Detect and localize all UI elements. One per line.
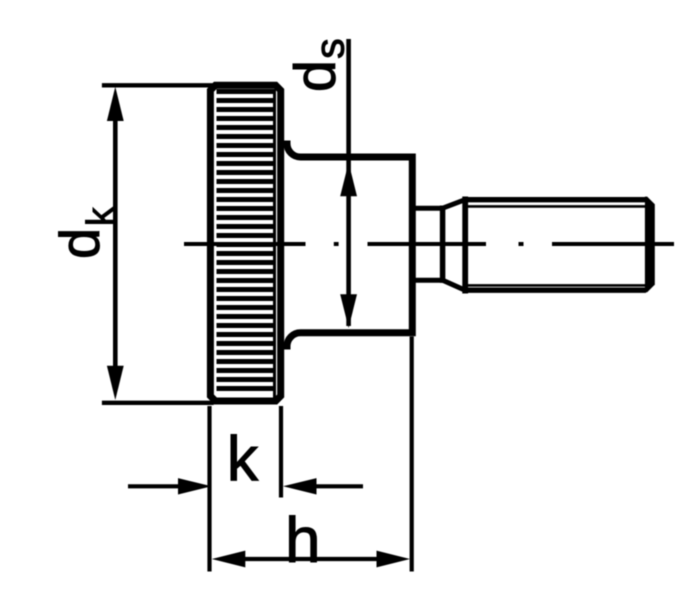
svg-text:s: s <box>307 38 353 59</box>
svg-text:h: h <box>285 504 321 576</box>
svg-text:d: d <box>283 60 347 92</box>
svg-text:d: d <box>48 228 111 259</box>
svg-text:k: k <box>80 207 121 226</box>
svg-text:k: k <box>227 425 259 495</box>
